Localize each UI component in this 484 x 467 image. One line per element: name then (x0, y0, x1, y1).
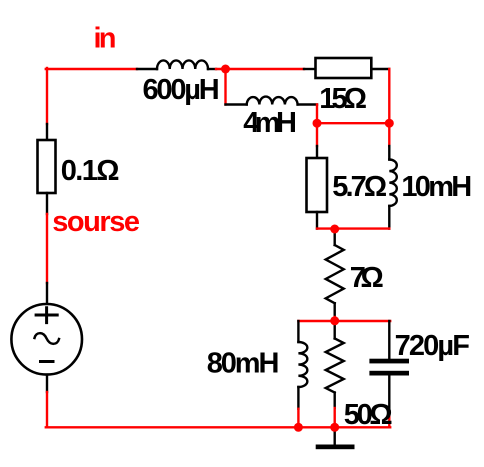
svg-text:7Ω: 7Ω (350, 262, 384, 294)
svg-text:0.1Ω: 0.1Ω (61, 155, 120, 187)
svg-text:600µH: 600µH (143, 74, 220, 106)
svg-text:720µF: 720µF (395, 330, 470, 362)
svg-text:15Ω: 15Ω (319, 83, 367, 115)
svg-text:10mH: 10mH (401, 171, 472, 203)
svg-text:80mH: 80mH (207, 347, 280, 379)
svg-text:5.7Ω: 5.7Ω (332, 171, 387, 203)
svg-text:sourse: sourse (52, 206, 140, 238)
svg-text:in: in (94, 22, 117, 54)
svg-text:50Ω: 50Ω (344, 399, 393, 431)
svg-text:4mH: 4mH (243, 107, 297, 139)
